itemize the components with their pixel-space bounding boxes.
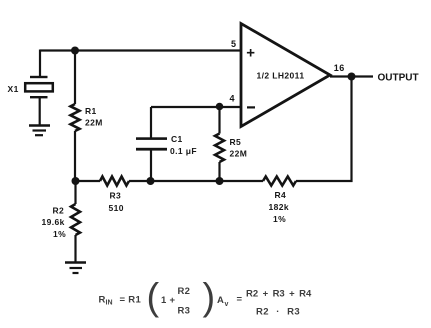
resistor R1: [71, 104, 80, 131]
resistor R5: [215, 134, 224, 163]
svg-text:22M: 22M: [85, 118, 103, 128]
svg-text:4: 4: [230, 94, 235, 104]
svg-text:(: (: [147, 277, 160, 319]
svg-text:1%: 1%: [53, 229, 66, 239]
svg-text:1%: 1%: [273, 214, 286, 224]
svg-text:0.1 μF: 0.1 μF: [170, 146, 197, 156]
wire pin4 rail: [151, 106, 241, 108]
pin 4 label: [230, 94, 235, 104]
svg-text:R2: R2: [178, 286, 191, 297]
wire top rail pin5: [40, 49, 241, 51]
capacitor C1: [136, 137, 167, 150]
label R5 value: [230, 137, 248, 159]
wire C1 top lead: [150, 107, 152, 138]
svg-text:R3: R3: [110, 191, 122, 201]
wire bottom rail middle (R3 to R4): [129, 180, 263, 182]
svg-text:R2 + R3 + R4: R2 + R3 + R4: [246, 289, 312, 300]
svg-text:C1: C1: [171, 134, 183, 144]
svg-text:= R1: = R1: [120, 295, 142, 306]
wire R5 top lead: [218, 107, 220, 134]
node junction output: [348, 73, 356, 81]
svg-text:R5: R5: [230, 137, 242, 147]
pin 5 label: [231, 39, 236, 49]
svg-text:A: A: [217, 295, 224, 306]
svg-text:1 +: 1 +: [161, 295, 176, 306]
wire C1 bottom lead: [150, 150, 152, 181]
wire bottom rail left (junction A to R3): [76, 180, 101, 182]
svg-text:v: v: [225, 301, 229, 308]
label R4 value: [269, 190, 290, 224]
resistor R3: [100, 177, 129, 186]
svg-text:=: =: [237, 294, 243, 305]
wire R1 top lead: [74, 51, 76, 105]
label R1 value: [85, 106, 103, 128]
svg-text:IN: IN: [106, 300, 113, 307]
node junction bottom rail / R5: [216, 177, 224, 185]
svg-text:R4: R4: [275, 190, 287, 200]
wire X1 bottom lead: [39, 98, 41, 126]
label R3 value: [109, 191, 124, 214]
svg-text:19.6k: 19.6k: [42, 217, 65, 227]
svg-text:R3: R3: [178, 306, 191, 317]
label C1 value: [170, 134, 197, 156]
wire bottom rail right (R4 to feedback corner): [296, 180, 353, 182]
svg-text:16: 16: [334, 63, 345, 73]
label X1: [8, 84, 19, 94]
wire R2 top lead: [74, 181, 76, 204]
label OUTPUT: [378, 73, 419, 84]
node junction top rail / R1: [71, 47, 79, 55]
pin 16 label: [334, 63, 345, 73]
wire R2 bottom lead: [74, 235, 76, 262]
wire X1 top lead: [39, 50, 41, 77]
svg-text:+: +: [246, 45, 255, 62]
node junction bottom rail / C1: [147, 177, 155, 185]
wire R5 bottom lead: [218, 162, 220, 181]
svg-text:182k: 182k: [269, 202, 290, 212]
ground (R2): [65, 263, 86, 274]
svg-text:R2: R2: [53, 206, 65, 216]
svg-text:X1: X1: [8, 84, 19, 94]
wire R1 bottom lead: [74, 131, 76, 181]
ground (X1): [29, 126, 50, 136]
formula Rin: [99, 277, 216, 319]
node junction bottom rail / R2: [72, 177, 80, 185]
svg-text:R2 · R3: R2 · R3: [256, 307, 300, 318]
wire feedback vertical: [350, 77, 352, 183]
svg-text:): ): [203, 277, 216, 319]
svg-text:510: 510: [109, 203, 124, 213]
wire output lead: [330, 75, 373, 77]
label R2 value: [42, 206, 67, 240]
node junction pin4 rail / R5: [216, 103, 224, 111]
crystal X1: [30, 76, 48, 99]
svg-text:22M: 22M: [230, 149, 248, 159]
op-amp U1 1/2 LH2011: [241, 24, 330, 127]
svg-text:1/2 LH2011: 1/2 LH2011: [257, 71, 305, 81]
svg-text:OUTPUT: OUTPUT: [378, 73, 419, 84]
resistor R2: [71, 204, 80, 235]
svg-text:R1: R1: [85, 106, 97, 116]
svg-text:5: 5: [231, 39, 236, 49]
resistor R4: [263, 177, 296, 186]
formula Av: [217, 289, 312, 318]
